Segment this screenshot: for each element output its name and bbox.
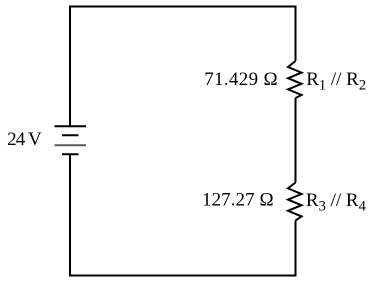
wire: bottom-left corner up to battery negative terminal bbox=[69, 154, 71, 277]
resistor R1 // R2 (zigzag) bbox=[288, 61, 302, 98]
battery: long plate 2 (grey) bbox=[55, 144, 87, 146]
wire: top-right corner down to resistor R1//R2 bbox=[295, 6, 297, 62]
wire: top horizontal bbox=[69, 6, 297, 8]
svg-text:127.27 Ω: 127.27 Ω bbox=[202, 189, 274, 210]
wire: battery positive terminal up to top-left corner bbox=[69, 7, 71, 128]
svg-text:71.429 Ω: 71.429 Ω bbox=[204, 69, 277, 90]
svg-text:R3 // R4: R3 // R4 bbox=[306, 190, 367, 214]
svg-text:24 V: 24 V bbox=[7, 129, 42, 150]
svg-text:R1 // R2: R1 // R2 bbox=[306, 69, 366, 93]
battery: short plate 2 (negative) bbox=[62, 153, 79, 155]
battery: short plate 1 bbox=[62, 134, 79, 136]
wire: bottom horizontal bbox=[69, 275, 297, 277]
battery 24 V: long plate 1 (positive) bbox=[55, 125, 87, 127]
resistor R3 // R4 (zigzag) bbox=[288, 183, 302, 221]
wire: between R1//R2 and R3//R4 bbox=[295, 98, 297, 183]
wire: below R3//R4 down to bottom-right corner bbox=[295, 221, 297, 277]
